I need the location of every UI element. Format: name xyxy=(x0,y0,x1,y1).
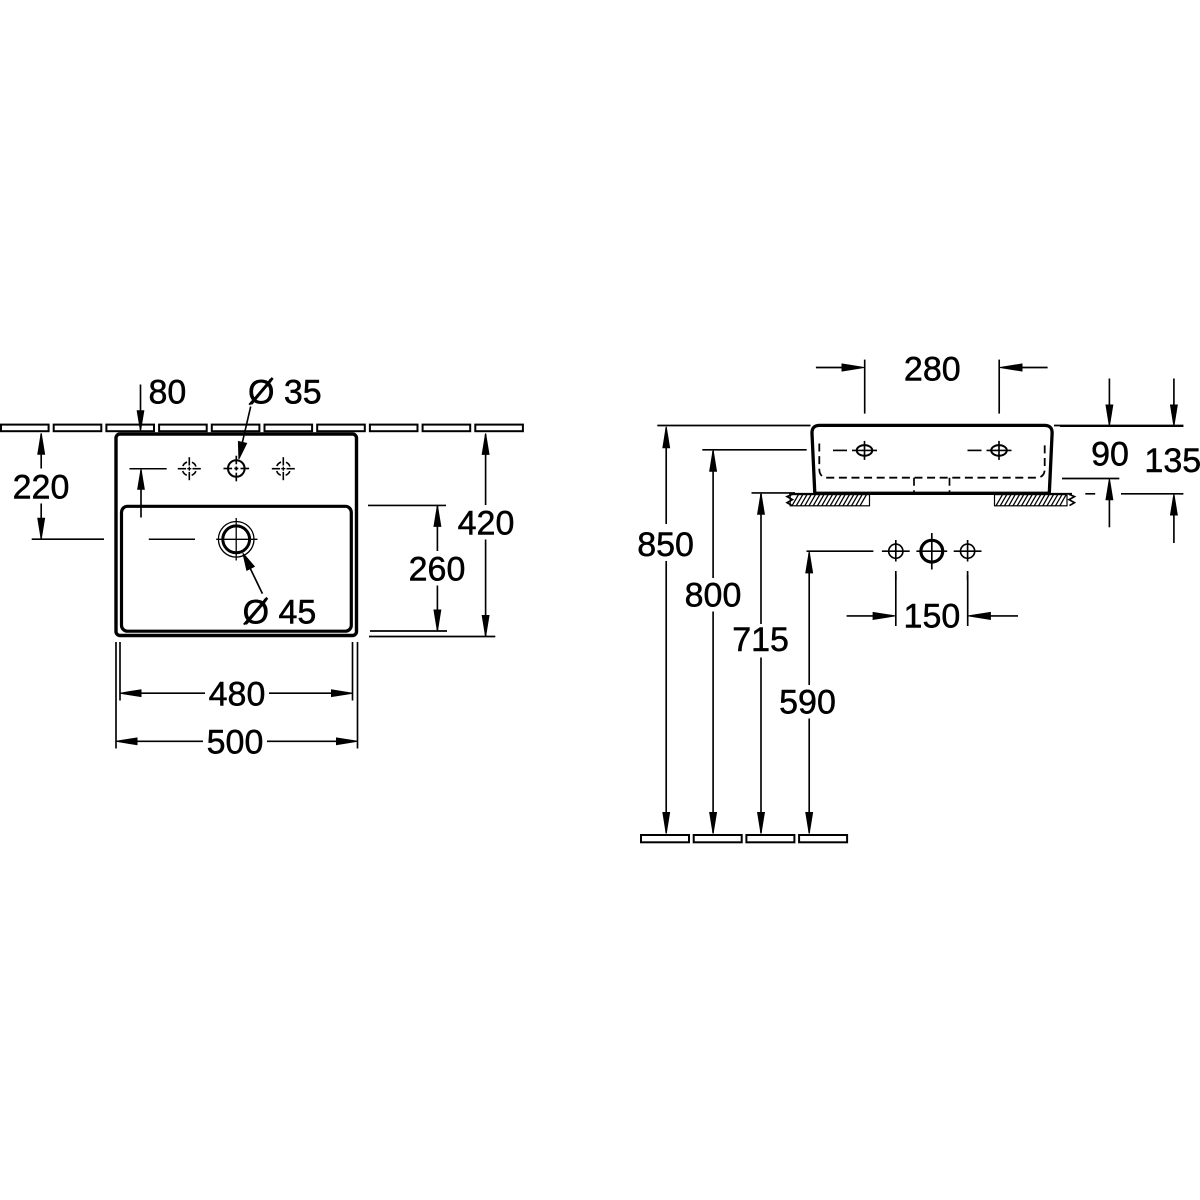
svg-text:220: 220 xyxy=(13,468,70,506)
wall hatch right xyxy=(995,494,1075,506)
basin inner bowl (top view) xyxy=(122,506,352,631)
floor line (front view) xyxy=(641,835,847,842)
svg-text:715: 715 xyxy=(732,621,789,659)
dimension 420 xyxy=(369,433,495,636)
svg-text:590: 590 xyxy=(779,684,836,722)
faucet hole left (dashed) xyxy=(178,457,201,480)
svg-text:850: 850 xyxy=(637,526,694,564)
basin inner profile (dashed, front view) xyxy=(819,444,1044,493)
svg-text:280: 280 xyxy=(904,351,961,389)
drain hole xyxy=(216,518,257,561)
faucet hole centerline xyxy=(130,468,167,470)
dimension 135 xyxy=(1085,379,1183,544)
dimension 800 xyxy=(702,450,806,834)
svg-text:260: 260 xyxy=(409,550,466,588)
dimension 150 xyxy=(847,575,1018,626)
dimension 80 xyxy=(137,385,144,518)
svg-text:90: 90 xyxy=(1091,435,1129,473)
wall hatch left xyxy=(787,494,870,506)
supply hole right (front view) xyxy=(954,540,982,580)
wall line (front view) xyxy=(789,493,1072,495)
svg-text:135: 135 xyxy=(1144,442,1200,480)
svg-text:80: 80 xyxy=(149,373,187,411)
svg-text:150: 150 xyxy=(904,597,961,635)
supply hole left (front view) xyxy=(882,540,910,580)
dimension 850 xyxy=(657,426,1183,834)
basin outline (front view) xyxy=(812,425,1052,493)
faucet hole right (dashed) xyxy=(272,457,295,480)
dimension 90 xyxy=(1060,379,1183,528)
dimension 590 xyxy=(806,551,874,833)
svg-text:800: 800 xyxy=(685,576,742,614)
dimension 280 xyxy=(816,360,1048,414)
dimension 220 xyxy=(32,433,104,539)
basin outer rim (top view) xyxy=(116,434,357,636)
screw hole left (front view) xyxy=(833,441,877,460)
screw hole right (front view) xyxy=(968,441,1012,460)
dimension 260 xyxy=(368,505,447,631)
faucet hole center xyxy=(224,456,250,482)
drain outlet (front view) xyxy=(916,533,947,570)
svg-text:480: 480 xyxy=(209,675,266,713)
dimension 715 xyxy=(752,493,796,834)
dimension 500 xyxy=(116,642,358,749)
drain centerline xyxy=(149,538,195,540)
svg-text:420: 420 xyxy=(458,504,515,542)
dimension 480 xyxy=(120,642,353,701)
svg-text:500: 500 xyxy=(207,723,264,761)
wall line (top view) xyxy=(1,425,523,432)
